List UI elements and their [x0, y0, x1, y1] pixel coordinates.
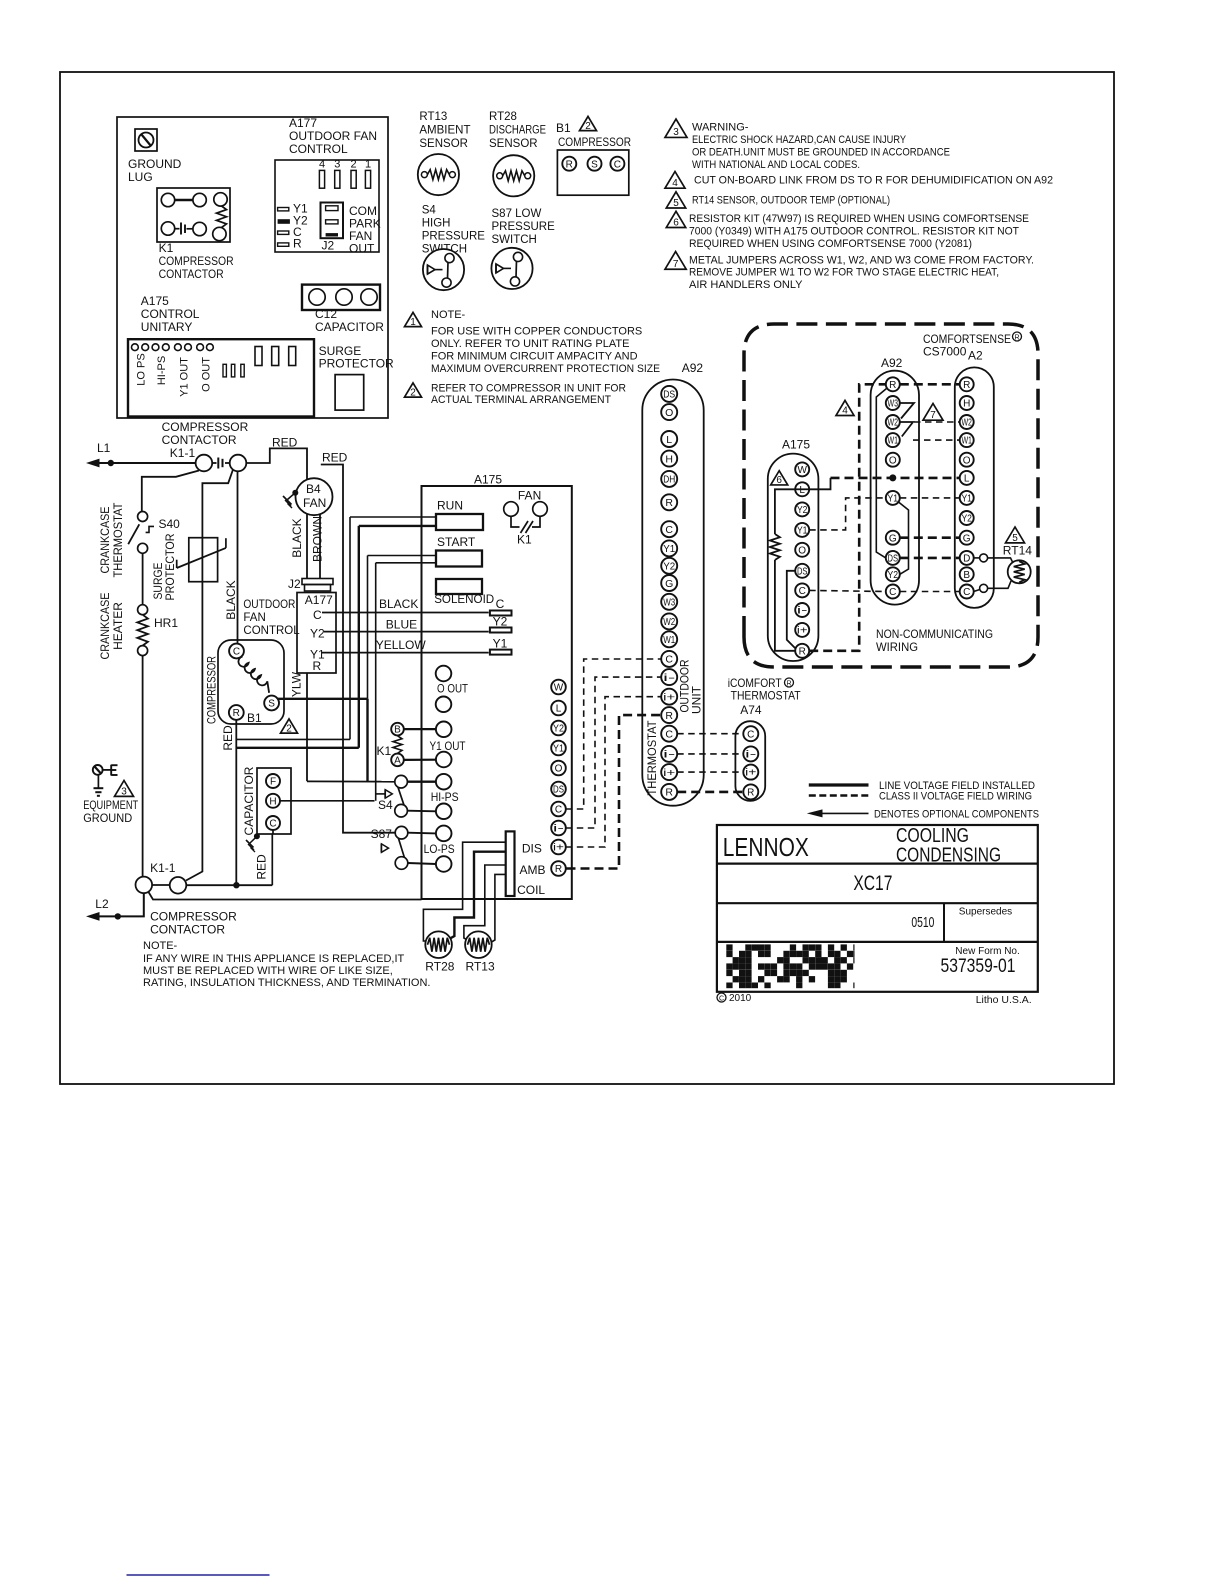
svg-text:S: S [591, 159, 598, 170]
svg-text:K1-1: K1-1 [170, 446, 196, 460]
svg-text:A177: A177 [305, 593, 333, 607]
svg-text:3: 3 [334, 159, 340, 171]
svg-text:AIR HANDLERS ONLY: AIR HANDLERS ONLY [689, 279, 803, 291]
svg-text:A92: A92 [682, 361, 704, 375]
svg-text:2: 2 [585, 121, 591, 132]
svg-text:HEATER: HEATER [111, 602, 125, 650]
svg-text:SOLENOID: SOLENOID [434, 592, 494, 606]
svg-text:D: D [963, 554, 970, 565]
svg-text:HR1: HR1 [154, 616, 178, 630]
svg-text:S: S [268, 699, 275, 710]
svg-text:L: L [799, 485, 805, 496]
svg-text:C: C [665, 728, 673, 740]
svg-text:C: C [747, 729, 754, 740]
svg-text:R: R [665, 497, 673, 509]
svg-text:CONTROL: CONTROL [243, 625, 300, 637]
svg-text:Y2: Y2 [663, 561, 675, 573]
svg-text:LUG: LUG [128, 170, 153, 184]
svg-text:W: W [554, 683, 564, 694]
svg-text:i-: i- [797, 606, 808, 617]
svg-text:ELECTRIC SHOCK HAZARD,CAN CAUS: ELECTRIC SHOCK HAZARD,CAN CAUSE INJURY [692, 134, 907, 146]
svg-text:B1: B1 [556, 121, 571, 135]
svg-text:CRANKCASE: CRANKCASE [98, 593, 112, 660]
svg-text:DS: DS [663, 389, 675, 401]
svg-text:4: 4 [672, 178, 678, 189]
svg-text:COMPRESSOR: COMPRESSOR [150, 910, 237, 924]
svg-text:K1: K1 [377, 744, 392, 758]
svg-text:CONTACTOR: CONTACTOR [159, 267, 224, 281]
svg-text:L2: L2 [95, 897, 109, 911]
svg-text:DS: DS [553, 785, 564, 796]
svg-text:AMBIENT: AMBIENT [419, 125, 470, 137]
svg-text:RED: RED [221, 725, 235, 751]
svg-text:B: B [394, 725, 401, 736]
svg-text:XC17: XC17 [853, 872, 892, 895]
svg-text:HI-PS: HI-PS [431, 790, 459, 804]
svg-text:Y1 OUT: Y1 OUT [178, 357, 190, 397]
svg-text:PRESSURE: PRESSURE [422, 231, 486, 243]
svg-text:K1: K1 [159, 241, 174, 255]
svg-text:W3: W3 [663, 597, 675, 609]
svg-text:5: 5 [1012, 533, 1018, 544]
svg-text:Y2: Y2 [553, 724, 564, 735]
svg-text:RED: RED [254, 854, 268, 880]
svg-text:UNITARY: UNITARY [141, 320, 193, 334]
svg-text:MAXIMUM OVERCURRENT PROTECTION: MAXIMUM OVERCURRENT PROTECTION SIZE [431, 363, 660, 375]
svg-text:B4: B4 [306, 482, 321, 496]
svg-text:C: C [614, 159, 621, 170]
svg-text:NOTE-: NOTE- [431, 309, 466, 321]
svg-text:K1-1: K1-1 [150, 861, 176, 875]
svg-text:R: R [889, 380, 896, 391]
svg-text:ACTUAL TERMINAL ARRANGEMENT: ACTUAL TERMINAL ARRANGEMENT [431, 394, 611, 406]
svg-text:WIRING: WIRING [876, 640, 918, 654]
svg-text:C: C [799, 586, 806, 597]
svg-text:R: R [1014, 335, 1019, 342]
svg-text:1: 1 [410, 317, 416, 328]
svg-text:i-: i- [745, 750, 756, 761]
svg-text:FAN: FAN [303, 496, 326, 510]
svg-text:FOR USE WITH COPPER CONDUCTORS: FOR USE WITH COPPER CONDUCTORS [431, 326, 642, 338]
svg-text:R: R [555, 864, 562, 875]
svg-text:S40: S40 [159, 517, 181, 531]
svg-text:FAN: FAN [518, 489, 541, 503]
svg-text:R: R [747, 788, 754, 799]
svg-text:L1: L1 [97, 441, 111, 455]
svg-text:O: O [798, 545, 806, 556]
svg-text:4: 4 [842, 406, 848, 417]
svg-text:RESISTOR KIT (47W97) IS REQUIR: RESISTOR KIT (47W97) IS REQUIRED WHEN US… [689, 213, 1029, 225]
svg-text:SENSOR: SENSOR [489, 138, 538, 150]
svg-text:Y2: Y2 [493, 615, 508, 629]
svg-text:HI-PS: HI-PS [156, 356, 168, 385]
svg-text:OR DEATH.UNIT MUST BE GROUNDED: OR DEATH.UNIT MUST BE GROUNDED IN ACCORD… [692, 147, 950, 159]
svg-text:CS7000: CS7000 [923, 345, 967, 359]
svg-text:B1: B1 [247, 711, 262, 725]
svg-text:FOR MINIMUM CIRCUIT AMPACITY A: FOR MINIMUM CIRCUIT AMPACITY AND [431, 351, 638, 363]
svg-text:BROWN: BROWN [310, 516, 324, 562]
svg-text:C: C [719, 996, 724, 1003]
svg-text:RT28: RT28 [425, 960, 454, 974]
svg-text:CONTROL: CONTROL [141, 307, 200, 321]
svg-text:B: B [963, 570, 970, 581]
svg-text:O: O [665, 407, 673, 419]
svg-text:C: C [555, 805, 562, 816]
svg-text:7000 (Y0349) WITH A175 OUTDOOR: 7000 (Y0349) WITH A175 OUTDOOR CONTROL. … [689, 226, 1019, 238]
svg-text:A177: A177 [289, 116, 317, 130]
svg-text:SENSOR: SENSOR [419, 138, 468, 150]
svg-text:NON-COMMUNICATING: NON-COMMUNICATING [876, 627, 993, 641]
svg-text:L: L [666, 434, 672, 446]
svg-text:S4: S4 [378, 798, 393, 812]
svg-text:CONTACTOR: CONTACTOR [162, 433, 237, 447]
svg-text:SWITCH: SWITCH [492, 234, 537, 246]
svg-text:C: C [665, 524, 673, 536]
svg-text:A2: A2 [968, 349, 983, 363]
svg-text:L: L [556, 704, 562, 715]
svg-text:Y1: Y1 [797, 526, 808, 537]
svg-text:RATING, INSULATION THICKNESS,: RATING, INSULATION THICKNESS, AND TERMIN… [143, 977, 430, 989]
svg-text:G: G [665, 578, 673, 590]
svg-text:F: F [270, 777, 276, 788]
svg-text:Y1 OUT: Y1 OUT [430, 739, 467, 753]
svg-text:C: C [313, 608, 322, 622]
svg-text:O: O [963, 455, 971, 466]
svg-text:O: O [889, 455, 897, 466]
svg-text:THERMOSTAT: THERMOSTAT [645, 720, 659, 796]
svg-text:BLUE: BLUE [386, 618, 417, 632]
svg-text:Y2: Y2 [797, 505, 808, 516]
svg-text:1: 1 [365, 159, 371, 171]
svg-text:2: 2 [410, 387, 416, 398]
svg-text:W1: W1 [663, 634, 675, 646]
svg-text:CLASS II VOLTAGE FIELD WIRING: CLASS II VOLTAGE FIELD WIRING [879, 791, 1032, 803]
svg-text:Y1: Y1 [663, 543, 675, 555]
svg-text:2010: 2010 [729, 993, 752, 1004]
svg-text:IF ANY WIRE IN THIS APPLIANCE: IF ANY WIRE IN THIS APPLIANCE IS REPLACE… [143, 953, 404, 965]
svg-text:6: 6 [673, 218, 679, 229]
svg-text:BLACK: BLACK [290, 518, 304, 557]
svg-text:R: R [566, 159, 573, 170]
svg-text:BLACK: BLACK [379, 597, 418, 611]
svg-text:LO PS: LO PS [135, 353, 147, 385]
svg-text:OUTDOOR: OUTDOOR [243, 599, 295, 611]
svg-text:537359-01: 537359-01 [941, 956, 1016, 977]
svg-text:HIGH: HIGH [422, 218, 451, 230]
svg-text:2: 2 [286, 723, 292, 734]
svg-text:DISCHARGE: DISCHARGE [489, 125, 546, 137]
svg-text:R: R [313, 659, 322, 673]
svg-text:S4: S4 [422, 205, 437, 217]
svg-text:S87: S87 [371, 827, 393, 841]
svg-text:H: H [665, 453, 673, 465]
svg-text:COMPRESSOR: COMPRESSOR [162, 420, 249, 434]
svg-text:6: 6 [776, 475, 782, 486]
svg-text:GROUND: GROUND [128, 157, 182, 171]
svg-text:i+: i+ [797, 626, 808, 637]
svg-text:W: W [797, 465, 807, 476]
svg-text:C: C [496, 597, 505, 611]
svg-text:REMOVE JUMPER W1 TO W2 FOR TWO: REMOVE JUMPER W1 TO W2 FOR TWO STAGE ELE… [689, 267, 999, 279]
svg-text:W2: W2 [888, 418, 899, 429]
svg-text:RT13: RT13 [419, 111, 447, 123]
svg-text:W1: W1 [961, 436, 972, 447]
svg-text:i-: i- [553, 824, 564, 835]
svg-text:i+: i+ [663, 767, 675, 779]
svg-text:LENNOX: LENNOX [723, 832, 809, 862]
svg-text:DH: DH [663, 474, 675, 486]
svg-text:G: G [889, 533, 897, 544]
svg-text:START: START [437, 535, 476, 549]
svg-text:C: C [963, 587, 970, 598]
svg-text:DS: DS [797, 566, 808, 577]
svg-text:i+: i+ [745, 768, 756, 779]
svg-text:A74: A74 [740, 703, 762, 717]
svg-text:Litho U.S.A.: Litho U.S.A. [976, 994, 1032, 1006]
svg-text:DENOTES OPTIONAL COMPONENTS: DENOTES OPTIONAL COMPONENTS [874, 809, 1039, 821]
svg-text:RT28: RT28 [489, 111, 517, 123]
svg-text:W1: W1 [888, 436, 899, 447]
svg-text:5: 5 [673, 198, 679, 209]
svg-text:0510: 0510 [911, 914, 934, 931]
svg-text:R: R [665, 710, 673, 722]
svg-text:RT13: RT13 [466, 960, 495, 974]
svg-text:LO-PS: LO-PS [424, 842, 455, 856]
svg-text:PROTECTOR: PROTECTOR [163, 533, 177, 600]
svg-text:A175: A175 [474, 473, 502, 487]
svg-text:RT14 SENSOR, OUTDOOR TEMP (OPT: RT14 SENSOR, OUTDOOR TEMP (OPTIONAL) [692, 194, 890, 206]
svg-text:C: C [889, 587, 896, 598]
svg-text:Y1: Y1 [553, 744, 564, 755]
svg-text:i+: i+ [553, 843, 564, 854]
svg-text:i-: i- [663, 749, 676, 761]
svg-text:CUT ON-BOARD LINK FROM DS TO R: CUT ON-BOARD LINK FROM DS TO R FOR DEHUM… [694, 174, 1053, 186]
svg-text:RED: RED [322, 451, 348, 465]
svg-text:MUST BE REPLACED WITH WIRE OF: MUST BE REPLACED WITH WIRE OF LIKE SIZE, [143, 965, 393, 977]
svg-text:A175: A175 [141, 294, 169, 308]
svg-text:COIL: COIL [517, 883, 545, 897]
svg-text:CONTACTOR: CONTACTOR [150, 923, 225, 937]
svg-text:GROUND: GROUND [83, 811, 132, 825]
svg-text:O: O [555, 764, 563, 775]
svg-text:i-: i- [663, 672, 676, 684]
svg-text:W2: W2 [961, 418, 972, 429]
svg-text:YLW: YLW [289, 671, 303, 697]
svg-text:EQUIPMENT: EQUIPMENT [83, 798, 139, 812]
svg-text:Y2: Y2 [888, 570, 899, 581]
svg-text:A92: A92 [881, 356, 903, 370]
svg-text:REFER TO COMPRESSOR IN UNIT FO: REFER TO COMPRESSOR IN UNIT FOR [431, 382, 626, 394]
svg-text:DS: DS [888, 554, 899, 565]
svg-text:W2: W2 [663, 616, 675, 628]
svg-text:Y1: Y1 [961, 494, 972, 505]
svg-text:PROTECTOR: PROTECTOR [319, 357, 394, 371]
svg-text:CAPACITOR: CAPACITOR [242, 766, 256, 835]
svg-text:DIS: DIS [522, 842, 542, 856]
svg-text:4: 4 [319, 159, 325, 171]
svg-text:A: A [394, 756, 401, 767]
svg-text:NOTE-: NOTE- [143, 940, 178, 952]
svg-text:BLACK: BLACK [224, 580, 238, 619]
svg-text:W3: W3 [888, 399, 899, 410]
svg-text:J2: J2 [322, 239, 335, 253]
svg-text:H: H [269, 796, 276, 807]
svg-text:L: L [964, 474, 970, 485]
svg-text:FAN: FAN [243, 612, 265, 624]
svg-text:CONTROL: CONTROL [289, 142, 348, 156]
svg-text:COMPRESSOR: COMPRESSOR [558, 135, 631, 149]
svg-text:O OUT: O OUT [437, 682, 469, 696]
svg-text:AMB: AMB [520, 863, 546, 877]
svg-text:7: 7 [930, 410, 936, 421]
svg-text:UNIT: UNIT [689, 685, 703, 714]
svg-text:THERMOSTAT: THERMOSTAT [111, 502, 125, 578]
svg-text:RUN: RUN [437, 499, 463, 513]
svg-text:WITH NATIONAL AND LOCAL CODES.: WITH NATIONAL AND LOCAL CODES. [692, 159, 860, 171]
svg-text:COMPRESSOR: COMPRESSOR [205, 656, 219, 724]
svg-text:S87 LOW: S87 LOW [492, 208, 542, 220]
svg-text:CONDENSING: CONDENSING [896, 845, 1001, 867]
svg-text:PRESSURE: PRESSURE [492, 221, 556, 233]
svg-text:ONLY. REFER TO UNIT RATING PLA: ONLY. REFER TO UNIT RATING PLATE [431, 338, 629, 350]
svg-text:C12: C12 [315, 307, 337, 321]
svg-text:OUTDOOR FAN: OUTDOOR FAN [289, 129, 377, 143]
svg-text:Y2: Y2 [310, 627, 325, 641]
svg-text:G: G [963, 533, 971, 544]
svg-text:WARNING-: WARNING- [692, 121, 749, 133]
svg-text:R: R [786, 681, 791, 688]
svg-text:Y1: Y1 [888, 494, 899, 505]
svg-text:YELLOW: YELLOW [376, 638, 427, 652]
svg-text:RT14: RT14 [1003, 544, 1032, 558]
svg-text:CAPACITOR: CAPACITOR [315, 320, 384, 334]
svg-text:Y1: Y1 [493, 637, 508, 651]
svg-text:C: C [665, 654, 673, 666]
svg-text:7: 7 [673, 259, 679, 270]
svg-text:R: R [799, 646, 806, 657]
svg-text:R: R [293, 237, 302, 251]
svg-text:i+: i+ [663, 691, 675, 703]
svg-text:H: H [963, 399, 970, 410]
svg-text:J2: J2 [288, 577, 301, 591]
svg-text:R: R [963, 380, 970, 391]
svg-text:REQUIRED WHEN USING COMFORTSEN: REQUIRED WHEN USING COMFORTSENSE 7000 (Y… [689, 238, 972, 250]
svg-text:CRANKCASE: CRANKCASE [98, 507, 112, 574]
svg-text:3: 3 [673, 127, 679, 138]
svg-text:C: C [269, 819, 276, 830]
svg-text:3: 3 [121, 786, 127, 797]
svg-text:Supersedes: Supersedes [959, 907, 1012, 918]
svg-text:2: 2 [351, 159, 357, 171]
svg-text:C: C [233, 647, 240, 658]
svg-text:K1: K1 [517, 533, 532, 547]
svg-text:R: R [233, 708, 240, 719]
svg-text:R: R [665, 787, 673, 799]
svg-text:COMPRESSOR: COMPRESSOR [159, 254, 234, 268]
svg-text:METAL JUMPERS ACROSS W1, W2, A: METAL JUMPERS ACROSS W1, W2, AND W3 COME… [689, 254, 1034, 266]
svg-text:RED: RED [272, 436, 298, 450]
svg-text:Y2: Y2 [961, 514, 972, 525]
svg-text:O OUT: O OUT [200, 357, 212, 392]
svg-text:THERMOSTAT: THERMOSTAT [731, 689, 802, 703]
svg-text:A175: A175 [782, 438, 810, 452]
svg-text:OUT: OUT [349, 241, 375, 255]
